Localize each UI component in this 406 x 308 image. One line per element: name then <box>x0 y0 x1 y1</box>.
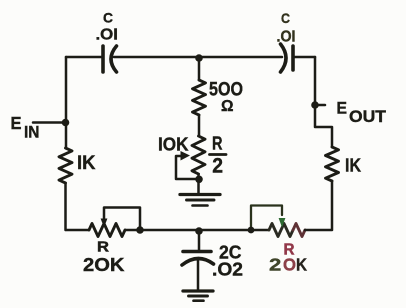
svg-text:R: R <box>97 240 110 256</box>
svg-text:E: E <box>11 113 22 133</box>
svg-text:R: R <box>212 134 223 154</box>
svg-text:.OI: .OI <box>277 29 296 46</box>
svg-text:IOK: IOK <box>158 135 189 155</box>
svg-text:K: K <box>296 255 307 275</box>
svg-text:C: C <box>103 11 113 26</box>
svg-text:C: C <box>281 10 290 26</box>
svg-text:2: 2 <box>212 154 223 178</box>
svg-text:OUT: OUT <box>349 107 386 126</box>
svg-text:IK: IK <box>345 156 361 176</box>
svg-text:E: E <box>337 99 348 118</box>
svg-text:IN: IN <box>24 124 40 142</box>
svg-text:2: 2 <box>269 255 281 275</box>
svg-text:O: O <box>283 255 296 275</box>
svg-text:.OI: .OI <box>96 27 119 44</box>
svg-text:.O2: .O2 <box>212 260 243 280</box>
svg-text:IK: IK <box>77 153 96 174</box>
svg-text:Ω: Ω <box>221 98 234 115</box>
svg-text:2OK: 2OK <box>83 255 125 275</box>
